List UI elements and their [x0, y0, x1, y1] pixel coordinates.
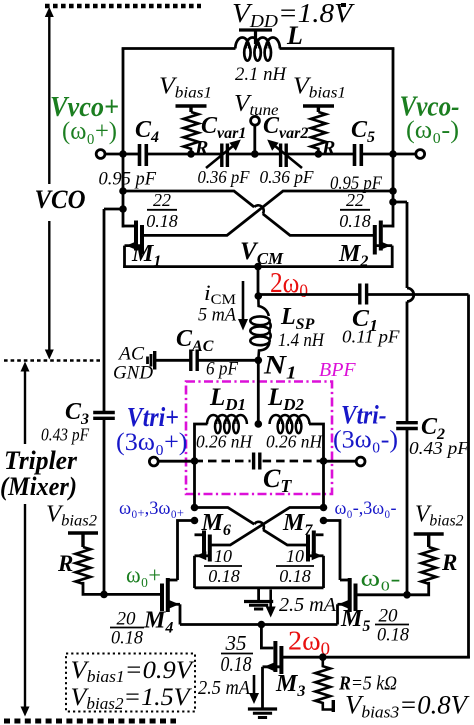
- svg-text:22: 22: [153, 190, 171, 210]
- ground (tripler core tail): [257, 588, 260, 601]
- wire: LD2 right elbow down: [309, 424, 324, 508]
- inductor L_SP: [250, 296, 270, 360]
- V_bias3 T-bar: [332, 700, 335, 712]
- V_bias1 T-bar right: [303, 106, 334, 112]
- node: LD center junction: [254, 420, 262, 428]
- wire hop: right outer wire jumps over C1 wire: [407, 288, 414, 302]
- legend dotted box: [66, 654, 195, 712]
- svg-text:(3ω₀+): (3ω₀+): [116, 429, 188, 456]
- wire: M5 drain up-elbow: [324, 521, 341, 581]
- wire: cross line B (M7 drain to left node): [195, 508, 308, 546]
- terminal Vvco+: [96, 150, 105, 159]
- svg-text:Vtri+: Vtri+: [127, 402, 179, 432]
- wire: C1 to hop: [367, 293, 469, 296]
- V_CM rail: [123, 265, 392, 268]
- wire V_tune stem: [253, 125, 256, 154]
- wire: left main vertical (Vvco+ node): [122, 49, 125, 228]
- svg-text:0.36 pF: 0.36 pF: [198, 167, 251, 187]
- svg-text:22: 22: [346, 190, 364, 210]
- node N1: [254, 357, 262, 365]
- svg-text:0.18: 0.18: [279, 566, 311, 586]
- V_bias1 T-bar left: [176, 106, 207, 112]
- node: left outer tap junction: [119, 205, 127, 213]
- VCO extent arrow: [48, 11, 50, 351]
- wire: right outer wire lower: [406, 429, 409, 595]
- svg-text:2.5 mA: 2.5 mA: [198, 678, 250, 699]
- node: V_tune junction: [251, 150, 259, 158]
- inductor L (center-tapped tank inductor): [235, 37, 280, 60]
- svg-text:0.18: 0.18: [377, 625, 409, 646]
- varactor C_var2: [281, 144, 287, 168]
- svg-text:5 mA: 5 mA: [198, 306, 237, 326]
- Tripler extent arrow: [24, 369, 26, 708]
- svg-text:6 pF: 6 pF: [206, 360, 239, 380]
- node: right bias R junction: [315, 150, 323, 158]
- wire: V_CM down to C1 branch: [257, 267, 260, 297]
- svg-text:ω₀+: ω₀+: [126, 563, 161, 588]
- node: M4 gate junction: [100, 591, 108, 599]
- bottom section boundary dashed line: [4, 719, 176, 724]
- wire: left outer wire upper: [103, 209, 106, 412]
- node: BPF right node: [320, 457, 328, 465]
- svg-text:(3ω₀-): (3ω₀-): [333, 427, 398, 454]
- svg-text:ω₀-: ω₀-: [361, 566, 401, 591]
- wire: cross line A (M6 drain to right node): [210, 508, 324, 546]
- wire: left R to M4 gate node: [83, 582, 104, 595]
- transistor M4: [162, 578, 168, 612]
- svg-text:0.18: 0.18: [208, 566, 240, 586]
- node: left tank junction: [119, 150, 127, 158]
- svg-text:ω₀-,3ω₀-: ω₀-,3ω₀-: [335, 498, 397, 519]
- svg-text:20: 20: [379, 606, 399, 627]
- V_bias2 T-bar left: [68, 533, 98, 547]
- wire: AC gnd to C_AC: [155, 359, 191, 362]
- BPF dash-dot box: [186, 382, 332, 495]
- node: R5k junction: [319, 653, 327, 661]
- svg-text:0.18: 0.18: [146, 211, 178, 231]
- node: BPF-left lower junctions: [191, 504, 199, 512]
- AC ground symbol: [148, 354, 152, 367]
- wire: M3 gate lead: [261, 625, 273, 649]
- top section boundary dashed line: [45, 4, 201, 9]
- svg-text:0.43 pF: 0.43 pF: [41, 425, 90, 445]
- node: BPF left node: [191, 457, 199, 465]
- terminal Vvco-: [416, 150, 425, 159]
- wire: M4/M5 source tail rail: [180, 623, 338, 626]
- wire: right main vertical (Vvco- node): [392, 49, 395, 228]
- capacitor C_T dashed branch: [195, 460, 251, 463]
- capacitor C_AC: [191, 350, 197, 372]
- node: right outer tap junction: [389, 198, 397, 206]
- svg-text:0.18: 0.18: [221, 652, 252, 676]
- ground (M3 source): [248, 709, 277, 718]
- wire: VDD rail left segment: [122, 47, 236, 50]
- wire: LD1 left elbow down: [195, 424, 208, 508]
- resistor R (left bias): [184, 112, 199, 154]
- svg-text:Vtri-: Vtri-: [341, 401, 387, 430]
- resistor R 5k: [315, 657, 332, 709]
- wire: tap to right outer wire: [393, 201, 407, 204]
- tank row wire segments: [123, 153, 393, 156]
- wire: cross line B (M2 drain to left node): [123, 191, 375, 235]
- svg-text:0.26 nH: 0.26 nH: [196, 432, 253, 452]
- svg-text:(Mixer): (Mixer): [0, 472, 77, 501]
- svg-text:R: R: [441, 550, 457, 575]
- VCO section dashed boundary (middle): [4, 359, 102, 362]
- transistor M1: [136, 221, 142, 255]
- capacitor C2: [396, 423, 418, 429]
- VDD supply T-bar: [239, 30, 272, 44]
- wire: far-right vertical (2omega0 line): [467, 295, 470, 659]
- svg-text:VCO: VCO: [35, 185, 86, 214]
- svg-text:1.4 nH: 1.4 nH: [278, 331, 325, 351]
- capacitor C_T: [254, 453, 260, 470]
- resistor R (right bias): [311, 112, 326, 154]
- wire: cross line A (M1 drain to right node): [142, 191, 393, 235]
- wire: BPF right to Vtri- terminal: [324, 460, 357, 463]
- node: right tank junction: [389, 150, 397, 158]
- transistor M2: [375, 221, 381, 255]
- wire: M3 drain rail to far right: [323, 656, 470, 659]
- inductor L_D1: [207, 415, 247, 433]
- transistor M6: [204, 531, 210, 562]
- svg-text:0.18: 0.18: [111, 628, 143, 649]
- 2.5 mA arrow (M3): [253, 675, 256, 695]
- wire: tap to left outer wire: [104, 208, 123, 211]
- svg-text:Tripler: Tripler: [4, 446, 78, 475]
- node: M5 gate junction: [403, 591, 411, 599]
- node: left bias R junction: [187, 150, 195, 158]
- svg-text:0.26 nH: 0.26 nH: [266, 432, 323, 452]
- svg-text:10: 10: [214, 546, 232, 566]
- capacitor C4: [140, 144, 147, 166]
- wire: M4 drain up-elbow: [178, 521, 195, 581]
- V_bias2 T-bar right: [414, 534, 444, 547]
- svg-text:R: R: [57, 551, 73, 576]
- svg-text:BPF: BPF: [319, 359, 356, 381]
- svg-text:AC: AC: [117, 345, 145, 365]
- resistor R (right V_bias2): [421, 547, 436, 584]
- svg-text:L: L: [286, 21, 303, 50]
- capacitor C1: [360, 284, 367, 305]
- terminal Vtri-: [356, 457, 365, 466]
- wire right tank node to terminal: [393, 153, 416, 156]
- inductor L_D2: [270, 415, 310, 433]
- wire: right R to M5 gate node: [407, 582, 429, 595]
- wire hop at M1/M2 gate cross: [254, 205, 264, 214]
- terminal V_tune: [251, 116, 260, 125]
- wire hop at M6/M7 gate cross: [254, 522, 264, 530]
- svg-text:0.36 pF: 0.36 pF: [260, 167, 315, 187]
- svg-text:0.18: 0.18: [339, 211, 371, 231]
- resistor R (left V_bias2): [76, 547, 91, 584]
- node: V_CM center junction: [254, 263, 262, 271]
- transistor M3: [275, 641, 281, 674]
- wire: N1 down to LD junction: [257, 360, 260, 424]
- wire: M6/M7 source rail: [195, 586, 324, 589]
- svg-text:0.43 pF: 0.43 pF: [409, 438, 470, 458]
- svg-text:R: R: [194, 137, 208, 159]
- transistor M5: [350, 578, 356, 612]
- node: BPF-right lower junctions: [320, 504, 328, 512]
- node: top line right junction: [389, 187, 397, 195]
- capacitor C3: [93, 413, 115, 419]
- wire: 2omega0 to C1: [258, 293, 360, 296]
- svg-text:0.11 pF: 0.11 pF: [342, 327, 401, 347]
- svg-text:R: R: [321, 137, 335, 159]
- node: C1 branch junction: [254, 292, 262, 300]
- transistor M7: [308, 531, 314, 562]
- wire: Vtri+ terminal to BPF left: [158, 460, 194, 463]
- node: tail rail center junction: [258, 621, 266, 629]
- varactor C_var1: [222, 144, 228, 168]
- svg-text:ω₀+,3ω₀+: ω₀+,3ω₀+: [119, 498, 184, 520]
- svg-text:20: 20: [117, 609, 137, 630]
- wire: right outer wire upper: [406, 202, 409, 423]
- wire terminal to left tank node: [105, 153, 124, 156]
- svg-text:2.5 mA: 2.5 mA: [279, 594, 337, 616]
- svg-text:GND: GND: [113, 364, 154, 384]
- svg-text:0.95 pF: 0.95 pF: [99, 170, 157, 190]
- svg-text:(ω₀-): (ω₀-): [406, 117, 459, 144]
- wire: C_AC to N1: [197, 359, 258, 362]
- node: top line left junction: [119, 187, 127, 195]
- wire: left outer wire lower: [103, 418, 106, 594]
- svg-text:2.1 nH: 2.1 nH: [235, 64, 287, 85]
- wire: VDD rail right segment: [280, 47, 395, 50]
- svg-text:(ω₀+): (ω₀+): [62, 118, 117, 145]
- svg-text:10: 10: [286, 546, 304, 566]
- terminal Vtri+: [149, 457, 158, 466]
- capacitor C5: [355, 144, 362, 166]
- i_CM current arrow: [242, 281, 245, 322]
- 2.5 mA arrow (core): [269, 590, 272, 610]
